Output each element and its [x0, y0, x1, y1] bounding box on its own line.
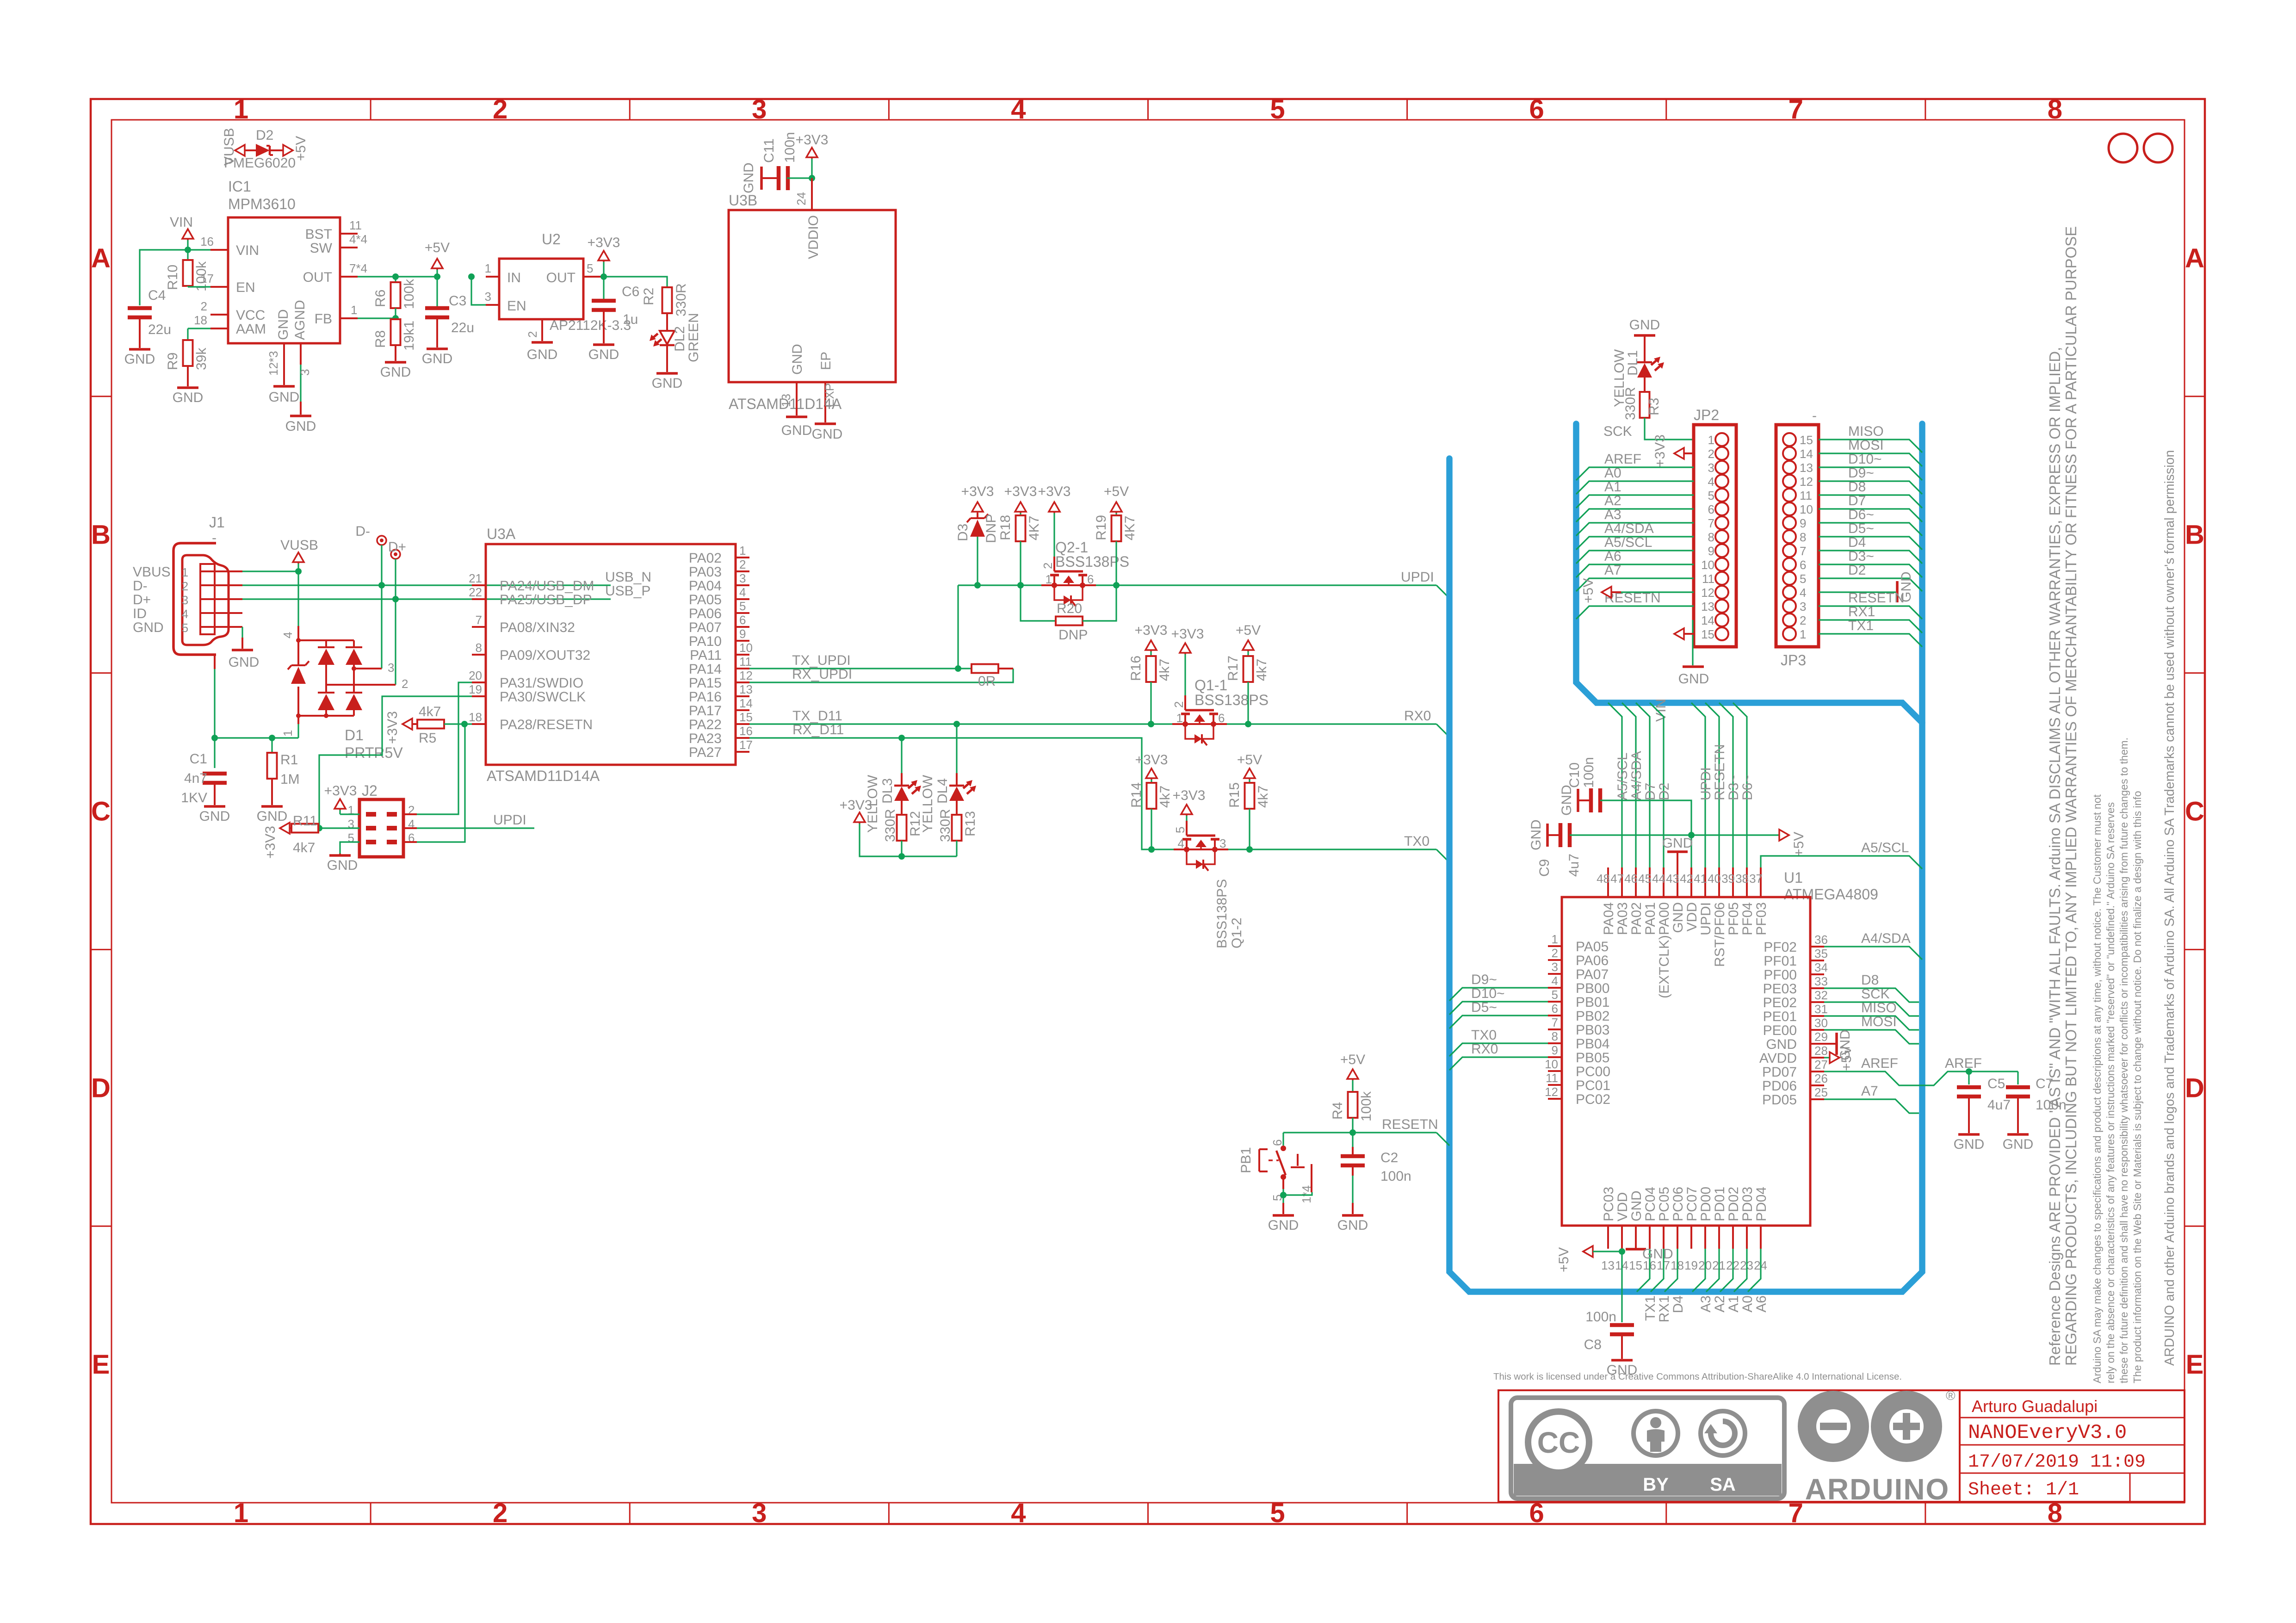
wire EN riser — [471, 277, 486, 305]
supply +5V at R4 — [1347, 1069, 1358, 1079]
svg-text:16: 16 — [200, 235, 214, 248]
U1 pin 17 PC05 — [1663, 1226, 1665, 1249]
svg-text:C9: C9 — [1537, 859, 1552, 877]
svg-text:A1: A1 — [1604, 479, 1621, 495]
JP2 pin2 +3V3 — [1674, 448, 1684, 459]
ground below R8 — [385, 361, 406, 364]
U1 pin 35 PF01 — [1810, 960, 1824, 961]
svg-text:9: 9 — [1708, 544, 1714, 558]
svg-text:GND: GND — [527, 347, 558, 362]
D1 pin 2 lead — [326, 684, 396, 686]
resistor R20 DNP — [1021, 585, 1056, 621]
svg-text:+5V: +5V — [1237, 752, 1262, 768]
svg-text:PA01: PA01 — [1643, 902, 1658, 935]
wire TX0 row — [1151, 849, 1436, 850]
U3A pin 12 PA15 — [736, 681, 749, 683]
svg-text:A2: A2 — [1604, 493, 1621, 508]
svg-text:2: 2 — [493, 94, 507, 124]
svg-text:AREF: AREF — [1945, 1056, 1982, 1071]
svg-text:PD06: PD06 — [1762, 1078, 1797, 1094]
svg-text:PF00: PF00 — [1764, 967, 1797, 983]
svg-text:2: 2 — [1800, 613, 1806, 627]
U3A pin 8 PA09/XOUT32 — [472, 654, 486, 656]
svg-text:PD04: PD04 — [1754, 1187, 1769, 1221]
svg-text:2: 2 — [182, 579, 188, 593]
svg-text:A: A — [2185, 243, 2204, 273]
frame row ticks — [91, 396, 111, 397]
CC circle icon — [1528, 1412, 1589, 1473]
U3A pin 4 PA05 — [736, 598, 749, 600]
wire TX1 from U1 bottom — [1637, 1249, 1650, 1292]
wire SWDIO to J2 pin2 — [417, 682, 472, 814]
wire J1 GND pin5 — [241, 627, 243, 638]
ground below PB1 — [1273, 1214, 1294, 1217]
wire PB1 to ground — [1282, 1189, 1284, 1195]
svg-text:GREEN: GREEN — [686, 313, 701, 362]
capacitor C4 22u — [128, 306, 152, 310]
svg-text:PC01: PC01 — [1576, 1078, 1610, 1093]
svg-text:D7: D7 — [1643, 783, 1658, 800]
wire D10~ to U1 — [1449, 1002, 1548, 1015]
svg-text:PD02: PD02 — [1726, 1187, 1741, 1221]
svg-text:ARDUINO: ARDUINO — [1805, 1473, 1950, 1506]
svg-text:5: 5 — [1800, 572, 1806, 586]
svg-text:41: 41 — [1694, 872, 1707, 886]
resistor R18 4K7 — [1015, 502, 1026, 512]
svg-text:R19: R19 — [1094, 515, 1109, 540]
svg-text:E: E — [92, 1350, 110, 1380]
svg-text:SCK: SCK — [1603, 424, 1632, 439]
U1 pin 29 GND — [1810, 1043, 1824, 1045]
svg-text:GND: GND — [1559, 785, 1574, 816]
svg-text:R9: R9 — [165, 353, 180, 370]
wire D4 from U1 bottom — [1665, 1249, 1677, 1292]
svg-text:SA: SA — [1710, 1474, 1736, 1495]
svg-text:1u: 1u — [623, 312, 638, 327]
diode D2 PMEG6020 — [245, 149, 256, 151]
svg-text:47: 47 — [1610, 872, 1624, 886]
svg-text:1KV: 1KV — [181, 790, 207, 805]
svg-text:VIN: VIN — [1653, 699, 1669, 722]
svg-text:VDD: VDD — [1684, 902, 1700, 931]
wire USB N — [242, 584, 611, 586]
svg-text:Reference Designs ARE PROVIDED: Reference Designs ARE PROVIDED "AS IS" A… — [2046, 347, 2063, 1366]
svg-text:7*4: 7*4 — [349, 261, 367, 275]
svg-text:+3V3: +3V3 — [385, 711, 400, 744]
svg-text:D3~: D3~ — [1726, 774, 1741, 800]
connector JP2 body — [1694, 425, 1736, 647]
wire U2 OUT +3V3 rail — [601, 277, 667, 287]
svg-text:6: 6 — [1800, 558, 1806, 572]
supply +5V arrow right — [1779, 830, 1789, 841]
wire JP3 D2 — [1819, 578, 1922, 591]
connector J2 body — [359, 799, 403, 857]
svg-text:330R: 330R — [1623, 387, 1638, 420]
wire U1 top pin riser — [1650, 703, 1664, 867]
svg-text:A3: A3 — [1604, 507, 1621, 522]
svg-text:15: 15 — [1701, 627, 1714, 641]
wire A3 from U1 bottom — [1692, 1249, 1705, 1292]
frame column ticks — [370, 99, 371, 120]
svg-text:BSS138PS: BSS138PS — [1214, 879, 1230, 948]
resistor R14 4k7 — [1146, 768, 1157, 778]
svg-text:+3V3: +3V3 — [1135, 623, 1168, 638]
svg-text:AAM: AAM — [236, 322, 266, 337]
svg-text:+3V3: +3V3 — [796, 132, 829, 148]
svg-text:VDD: VDD — [1615, 1192, 1630, 1221]
svg-text:4*4: 4*4 — [349, 232, 367, 246]
svg-text:PE02: PE02 — [1763, 995, 1797, 1010]
svg-text:26: 26 — [1814, 1072, 1828, 1085]
svg-text:D2: D2 — [256, 128, 273, 143]
svg-text:GND: GND — [124, 352, 155, 367]
junction VDD bottom — [1619, 1248, 1625, 1255]
svg-text:NANOEveryV3.0: NANOEveryV3.0 — [1968, 1421, 2127, 1444]
svg-text:+5V: +5V — [425, 240, 450, 255]
svg-text:6: 6 — [1529, 94, 1544, 124]
IC1 pin 18 lead — [210, 328, 228, 329]
svg-text:PA14: PA14 — [689, 662, 722, 677]
svg-text:9: 9 — [739, 627, 746, 641]
svg-text:MOSI: MOSI — [1848, 438, 1884, 453]
svg-text:PA06: PA06 — [1576, 953, 1609, 968]
svg-text:PA05: PA05 — [1576, 939, 1609, 954]
svg-text:RX1: RX1 — [1848, 604, 1875, 619]
ground below R9 — [177, 386, 198, 389]
svg-text:12: 12 — [1800, 475, 1813, 489]
JP2 pin15 VIN — [1674, 628, 1684, 639]
U3A ATSAMD11D14A body — [486, 544, 736, 765]
U3B ATSAMD11D14A body — [729, 210, 896, 382]
svg-text:GND: GND — [781, 423, 812, 438]
U3A pin 15 PA22 — [736, 723, 749, 725]
J2 pin4 lead — [403, 827, 417, 829]
svg-text:R6: R6 — [373, 290, 388, 307]
svg-text:A0: A0 — [1740, 1295, 1755, 1313]
svg-text:BST: BST — [305, 227, 332, 242]
svg-text:PE00: PE00 — [1763, 1023, 1797, 1038]
svg-text:PE03: PE03 — [1763, 981, 1797, 997]
wire D8 — [1824, 988, 1919, 1002]
svg-text:100k: 100k — [402, 279, 417, 309]
svg-text:GND: GND — [276, 309, 291, 340]
svg-text:PA04: PA04 — [1601, 902, 1616, 935]
capacitor C1 4n7 1KV — [214, 738, 215, 768]
svg-text:D6~: D6~ — [1848, 507, 1874, 522]
svg-text:12*3: 12*3 — [266, 351, 280, 376]
svg-text:6: 6 — [1218, 711, 1225, 725]
diode array D1 PRTR5V — [297, 571, 299, 626]
transistor Q1-2 BSS138PS — [1174, 849, 1228, 850]
ground below C3 — [427, 347, 448, 350]
wire USB P — [242, 598, 611, 600]
pushbutton PB1 — [1282, 1133, 1284, 1146]
U3A pin 21 PA24/USB_DM — [472, 584, 486, 586]
svg-text:5: 5 — [1552, 988, 1558, 1002]
U2 pin 5 lead — [583, 276, 601, 278]
svg-text:U2: U2 — [542, 231, 561, 248]
net port VUSB — [235, 145, 245, 156]
wire A1 from U1 bottom — [1720, 1249, 1733, 1292]
wire JP2 AREF — [1576, 467, 1694, 480]
svg-text:PA22: PA22 — [689, 717, 722, 732]
svg-text:+5V: +5V — [1556, 1247, 1572, 1272]
registration circle left — [2109, 134, 2137, 162]
svg-text:10: 10 — [739, 641, 753, 655]
U1 pin 9 PB05 — [1548, 1056, 1562, 1058]
svg-text:48: 48 — [1597, 872, 1610, 886]
svg-text:A4/SDA: A4/SDA — [1629, 751, 1644, 800]
svg-text:D9~: D9~ — [1848, 465, 1874, 481]
svg-text:GND: GND — [812, 427, 843, 442]
svg-text:4u7: 4u7 — [1566, 854, 1582, 877]
svg-text:PD01: PD01 — [1712, 1187, 1727, 1221]
svg-text:2: 2 — [739, 558, 746, 571]
svg-text:32: 32 — [1814, 988, 1828, 1002]
bus blue outline JP2 branch — [1576, 424, 1922, 723]
resistor R1 1M — [271, 738, 272, 753]
svg-text:6: 6 — [1270, 1140, 1284, 1146]
IC1 pin 16 lead — [210, 249, 228, 251]
svg-text:2: 2 — [526, 331, 539, 338]
resistor R10 100k — [187, 250, 188, 260]
svg-text:PA02: PA02 — [689, 551, 722, 566]
IC1 pin 7*4 OUT lead — [340, 276, 358, 278]
svg-text:5: 5 — [1173, 827, 1187, 833]
svg-text:20: 20 — [469, 669, 482, 682]
svg-text:RX1: RX1 — [1657, 1295, 1672, 1322]
Arduino logo plus — [1893, 1423, 1920, 1430]
D1 lower-right diode — [346, 692, 362, 694]
svg-text:PA11: PA11 — [690, 648, 722, 663]
U1 pin 11 PC01 — [1548, 1084, 1562, 1086]
svg-text:D7: D7 — [1848, 493, 1866, 508]
svg-text:GND: GND — [422, 351, 453, 366]
svg-text:USB_P: USB_P — [605, 583, 650, 599]
svg-text:2: 2 — [1552, 946, 1558, 960]
svg-text:GND: GND — [1642, 1246, 1673, 1262]
ground below C6 — [593, 343, 614, 346]
svg-text:RX_D11: RX_D11 — [792, 722, 844, 737]
U1 pin 26 PD06 — [1810, 1084, 1824, 1086]
wire U1 top pin riser — [1636, 703, 1650, 867]
svg-text:3: 3 — [1219, 836, 1226, 850]
svg-text:GND: GND — [257, 809, 288, 824]
svg-text:7: 7 — [1708, 516, 1714, 530]
svg-text:3: 3 — [739, 571, 746, 585]
wire R3 to SCK — [1645, 418, 1694, 440]
svg-text:PA28/RESETN: PA28/RESETN — [500, 717, 593, 732]
svg-text:D2: D2 — [1848, 563, 1866, 578]
svg-text:D: D — [91, 1073, 111, 1103]
svg-text:PA27: PA27 — [689, 745, 722, 760]
svg-text:+3V3: +3V3 — [1135, 752, 1168, 768]
resistor R9 39k — [187, 328, 188, 340]
wire MOSI — [1824, 1030, 1919, 1044]
svg-text:A1: A1 — [1726, 1295, 1741, 1313]
svg-text:PD07: PD07 — [1762, 1065, 1797, 1080]
wire JP2 A3 — [1576, 523, 1694, 536]
svg-text:PD00: PD00 — [1698, 1187, 1714, 1221]
svg-text:5: 5 — [1270, 1498, 1285, 1528]
svg-text:A7: A7 — [1604, 563, 1621, 578]
junction R15 node — [1246, 846, 1253, 853]
svg-text:13: 13 — [1701, 600, 1714, 613]
svg-text:PA07: PA07 — [689, 620, 722, 635]
svg-text:+5V: +5V — [1340, 1052, 1365, 1067]
junction R18 node — [1017, 582, 1024, 588]
svg-text:10: 10 — [1701, 558, 1714, 572]
wire TX0 into bus — [1436, 849, 1449, 862]
svg-text:36: 36 — [1814, 933, 1828, 947]
svg-text:D5~: D5~ — [1471, 1000, 1497, 1015]
svg-text:C: C — [91, 797, 111, 827]
J2 pin6 lead — [403, 841, 417, 843]
U1 pin 31 PE01 — [1810, 1015, 1824, 1017]
svg-text:31: 31 — [1814, 1002, 1828, 1016]
svg-text:PF02: PF02 — [1764, 940, 1797, 955]
svg-text:3: 3 — [485, 290, 491, 304]
svg-text:C8: C8 — [1584, 1337, 1602, 1352]
svg-text:10: 10 — [1545, 1057, 1558, 1071]
wire RX0 into bus — [1436, 724, 1449, 737]
U3A pin 16 PA23 — [736, 737, 749, 739]
svg-text:D8: D8 — [1848, 479, 1866, 495]
svg-text:SW: SW — [310, 241, 333, 256]
resistor R6 100k — [395, 277, 396, 282]
svg-text:VIN: VIN — [170, 215, 193, 230]
svg-text:+3V3: +3V3 — [588, 235, 620, 250]
svg-text:1: 1 — [1046, 572, 1052, 586]
svg-text:RX_UPDI: RX_UPDI — [792, 667, 852, 682]
svg-text:A4/SDA: A4/SDA — [1604, 521, 1654, 536]
svg-text:R11: R11 — [293, 813, 317, 829]
JP2 pin14 GND — [1692, 620, 1693, 665]
capacitor C7 100n — [2017, 1072, 2018, 1084]
svg-text:TX1: TX1 — [1848, 618, 1874, 633]
svg-text:U3B: U3B — [729, 192, 757, 209]
svg-text:A: A — [91, 243, 111, 273]
svg-text:+5V: +5V — [1104, 484, 1129, 499]
svg-text:R14: R14 — [1129, 782, 1144, 808]
junction FB node — [392, 315, 399, 322]
svg-text:Arturo Guadalupi: Arturo Guadalupi — [1972, 1397, 2098, 1416]
svg-text:UPDI: UPDI — [1698, 767, 1714, 800]
svg-text:GND: GND — [173, 390, 204, 405]
svg-text:4k7: 4k7 — [1157, 659, 1172, 681]
svg-text:PA24/USB_DM: PA24/USB_DM — [500, 578, 594, 594]
svg-text:A5/SCL: A5/SCL — [1861, 840, 1909, 855]
svg-text:AVDD: AVDD — [1759, 1051, 1797, 1066]
U1 pin 25 PD05 — [1810, 1098, 1824, 1100]
svg-text:D4: D4 — [1848, 535, 1866, 550]
registration circle right — [2144, 134, 2172, 162]
svg-text:22: 22 — [469, 585, 482, 599]
U2 pin 3 lead — [486, 304, 499, 306]
U1 pin 16 PC04 — [1649, 1226, 1651, 1249]
svg-text:6: 6 — [1708, 502, 1714, 516]
svg-text:D+: D+ — [133, 592, 151, 607]
U1 pin 24 PD04 — [1760, 1226, 1762, 1249]
junction R17 node — [1245, 721, 1251, 727]
svg-text:19k1: 19k1 — [402, 321, 417, 351]
svg-text:15: 15 — [739, 710, 753, 724]
svg-text:17/07/2019 11:09: 17/07/2019 11:09 — [1968, 1452, 2146, 1473]
IC1 pin 11 BST lead — [340, 233, 358, 235]
supply +3V3 at D3 — [972, 502, 983, 512]
svg-text:D4: D4 — [1671, 1295, 1686, 1313]
U3A pin 9 PA10 — [736, 640, 749, 642]
svg-text:8: 8 — [2048, 94, 2062, 124]
svg-text:1: 1 — [485, 261, 491, 275]
svg-text:11: 11 — [349, 218, 362, 232]
wire TX0 to U1 — [1449, 1043, 1548, 1056]
svg-text:PF03: PF03 — [1754, 902, 1769, 935]
LED DL1 YELLOW — [1644, 335, 1646, 362]
svg-text:2: 2 — [1708, 447, 1714, 461]
wire C11 to VDDIO — [787, 177, 812, 179]
svg-text:7: 7 — [476, 613, 482, 627]
junction VUSB node — [295, 568, 302, 575]
svg-text:these for future definition an: these for future definition and shall ha… — [2118, 737, 2130, 1383]
svg-text:+3V3: +3V3 — [840, 798, 873, 813]
resistor R8 19k1 — [395, 318, 396, 319]
svg-text:9: 9 — [1800, 516, 1806, 530]
D1 upper-right diode — [346, 646, 362, 648]
JP2 pin12 +5V — [1602, 587, 1611, 598]
svg-text:MPM3610: MPM3610 — [228, 196, 296, 212]
U3A pin 5 PA06 — [736, 612, 749, 614]
U1 pin 14 VDD — [1621, 1226, 1623, 1249]
svg-text:D1: D1 — [345, 727, 364, 743]
IC1 pin 3 AGND lead — [300, 343, 302, 365]
junction DL4 riser — [953, 721, 960, 727]
svg-text:11: 11 — [1702, 572, 1714, 586]
wire VIN node to C4 — [140, 250, 188, 305]
svg-text:ID: ID — [133, 606, 147, 621]
svg-text:D5~: D5~ — [1848, 521, 1874, 536]
resistor R2 330R — [662, 287, 672, 313]
wire AREF — [1824, 1072, 2018, 1085]
svg-text:MISO: MISO — [1848, 424, 1884, 439]
U3A pin 11 PA14 — [736, 668, 749, 669]
svg-text:R16: R16 — [1128, 656, 1144, 681]
ground below R1 — [261, 805, 283, 808]
U3A pin 22 PA25/USB_DP — [472, 598, 486, 600]
net port +5V at D2 — [283, 145, 293, 156]
wire JP3 RX1 — [1819, 620, 1922, 633]
svg-text:BSS138PS: BSS138PS — [1055, 553, 1129, 570]
wire A5/SCL right — [1761, 856, 1922, 869]
wire JP2 RESETN — [1576, 606, 1694, 619]
svg-text:14: 14 — [1800, 447, 1813, 461]
supply +5V at U1 pin 28 AVDD — [1824, 1057, 1830, 1058]
wire U1 top pin riser — [1622, 703, 1636, 867]
connector JP3 body — [1776, 425, 1819, 647]
svg-text:3: 3 — [298, 369, 312, 376]
ground below U3B EP — [815, 422, 836, 425]
junction R6 top — [392, 273, 399, 280]
svg-text:3: 3 — [1708, 461, 1714, 475]
svg-text:19: 19 — [469, 682, 482, 696]
svg-text:+3V3: +3V3 — [263, 826, 278, 859]
junction AREF C5 — [1966, 1068, 1972, 1075]
U1 pin 15 GND — [1635, 1226, 1637, 1249]
wire JP3 D9~ — [1819, 481, 1922, 494]
IC1 pin 17 lead — [210, 286, 228, 288]
svg-text:A6: A6 — [1754, 1295, 1769, 1313]
capacitor C3 22u — [436, 277, 438, 308]
